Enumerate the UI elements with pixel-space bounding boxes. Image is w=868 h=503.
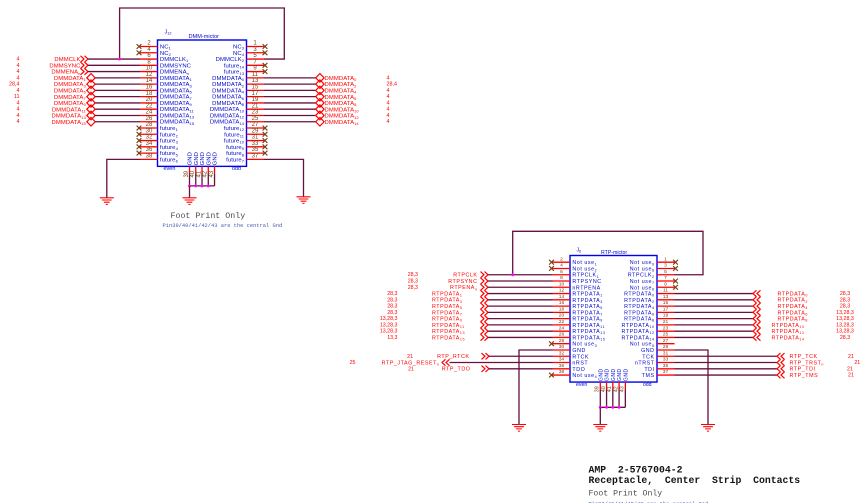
svg-text:43: 43 (620, 386, 626, 392)
svg-text:13,28,3: 13,28,3 (380, 329, 398, 335)
svg-text:future5: future5 (160, 151, 179, 157)
svg-text:RTPDATA9: RTPDATA9 (432, 317, 462, 323)
svg-text:RTPDATA11: RTPDATA11 (572, 323, 605, 329)
svg-text:22: 22 (146, 103, 153, 109)
svg-text:TDO: TDO (572, 367, 585, 373)
svg-text:4: 4 (387, 88, 390, 94)
svg-text:Not use4: Not use4 (572, 373, 597, 379)
svg-text:RTP_TDO: RTP_TDO (442, 367, 471, 373)
svg-text:NC4: NC4 (233, 51, 245, 57)
svg-text:DMMDATA7: DMMDATA7 (54, 95, 87, 101)
svg-text:40: 40 (190, 170, 196, 177)
svg-text:GND: GND (641, 348, 655, 354)
svg-text:12: 12 (559, 288, 565, 294)
svg-text:TMS: TMS (642, 373, 655, 379)
svg-text:Foot Print Only: Foot Print Only (171, 211, 246, 221)
svg-text:odd: odd (643, 382, 652, 388)
svg-text:11: 11 (14, 94, 20, 100)
svg-text:38: 38 (559, 369, 565, 375)
svg-text:4: 4 (387, 94, 390, 100)
svg-text:2: 2 (560, 256, 563, 262)
svg-text:RTPSYNC: RTPSYNC (572, 279, 601, 285)
svg-text:DMMDATA12: DMMDATA12 (325, 114, 360, 120)
svg-text:17: 17 (252, 91, 259, 97)
svg-text:DMMDATA0: DMMDATA0 (212, 76, 245, 82)
svg-text:4: 4 (17, 69, 20, 75)
svg-text:RTPCLK2: RTPCLK2 (628, 273, 655, 279)
svg-text:RTPDATA4: RTPDATA4 (778, 304, 808, 310)
svg-text:28,3: 28,3 (840, 297, 850, 303)
svg-text:DMMDATA1: DMMDATA1 (54, 76, 87, 82)
svg-text:13,28,3: 13,28,3 (836, 329, 854, 335)
svg-text:DMMDATA15: DMMDATA15 (160, 120, 195, 126)
svg-text:6: 6 (560, 269, 563, 275)
svg-text:28,4: 28,4 (387, 82, 398, 88)
svg-text:GND: GND (194, 152, 200, 165)
svg-text:Not use3: Not use3 (572, 342, 597, 348)
svg-text:future3: future3 (160, 139, 179, 145)
svg-text:RTPDATA2: RTPDATA2 (624, 298, 654, 304)
svg-text:DMMDATA2: DMMDATA2 (212, 82, 245, 88)
svg-text:RTP-mictor: RTP-mictor (601, 250, 627, 256)
svg-text:41: 41 (607, 386, 613, 392)
svg-text:12: 12 (146, 72, 153, 78)
svg-text:RTPDATA7: RTPDATA7 (572, 310, 602, 316)
svg-text:21: 21 (252, 103, 259, 109)
svg-text:13,28,3: 13,28,3 (380, 316, 398, 322)
svg-text:4: 4 (17, 107, 20, 113)
svg-text:DMMDATA10: DMMDATA10 (210, 107, 245, 113)
svg-text:GND: GND (200, 152, 206, 165)
svg-text:RTPDATA8: RTPDATA8 (624, 317, 654, 323)
svg-text:DMMDATA15: DMMDATA15 (52, 120, 87, 126)
svg-text:TDI: TDI (644, 367, 654, 373)
svg-text:RTPENAn: RTPENAn (450, 285, 477, 291)
svg-text:RTPCLK: RTPCLK (453, 273, 477, 279)
svg-text:DMMDATA4: DMMDATA4 (325, 88, 358, 94)
svg-text:35: 35 (252, 147, 259, 153)
svg-text:RTPDATA0: RTPDATA0 (778, 291, 808, 297)
svg-text:Not use2: Not use2 (572, 266, 597, 272)
svg-text:13,3: 13,3 (387, 335, 397, 341)
svg-text:17: 17 (663, 306, 669, 312)
svg-text:DMMDATA4: DMMDATA4 (212, 88, 245, 94)
svg-text:DMMDATA1: DMMDATA1 (160, 76, 193, 82)
svg-text:Not use1: Not use1 (572, 260, 597, 266)
svg-text:GND: GND (206, 152, 212, 165)
svg-text:38: 38 (146, 153, 153, 159)
svg-text:RTP_RTCK: RTP_RTCK (437, 354, 469, 360)
svg-text:4: 4 (17, 100, 20, 106)
svg-text:DMMDATA2: DMMDATA2 (325, 82, 358, 88)
svg-text:9: 9 (664, 281, 667, 287)
svg-text:29: 29 (252, 128, 259, 134)
svg-text:25: 25 (663, 332, 669, 338)
svg-text:RTPDATA1: RTPDATA1 (432, 291, 462, 297)
svg-text:RTPCLK1: RTPCLK1 (572, 273, 599, 279)
svg-text:future6: future6 (160, 157, 179, 163)
svg-text:25: 25 (252, 116, 259, 122)
svg-text:24: 24 (559, 325, 565, 331)
svg-text:GND: GND (605, 368, 611, 381)
svg-text:RTPDATA6: RTPDATA6 (624, 310, 654, 316)
svg-text:RTPDATA9: RTPDATA9 (572, 317, 602, 323)
svg-text:future11: future11 (224, 132, 245, 138)
svg-text:30: 30 (559, 344, 565, 350)
svg-text:21: 21 (847, 366, 853, 372)
svg-text:RTPDATA3: RTPDATA3 (572, 298, 602, 304)
svg-text:GND: GND (617, 368, 623, 381)
svg-text:future10: future10 (224, 139, 245, 145)
svg-text:42: 42 (613, 386, 619, 392)
svg-text:36: 36 (146, 147, 153, 153)
svg-text:34: 34 (146, 141, 153, 147)
svg-text:35: 35 (663, 363, 669, 369)
svg-text:4: 4 (560, 263, 563, 269)
svg-text:41: 41 (196, 170, 202, 177)
svg-text:Not use7: Not use7 (630, 279, 655, 285)
svg-text:RTPDATA5: RTPDATA5 (572, 304, 602, 310)
svg-text:18: 18 (146, 91, 153, 97)
svg-text:3: 3 (664, 263, 667, 269)
svg-text:18: 18 (559, 306, 565, 312)
svg-text:23: 23 (252, 110, 259, 116)
svg-text:13,28,3: 13,28,3 (836, 322, 854, 328)
svg-text:30: 30 (146, 128, 153, 134)
svg-text:DMMDATA14: DMMDATA14 (210, 120, 245, 126)
svg-text:10: 10 (146, 66, 153, 72)
svg-text:28,3: 28,3 (840, 291, 850, 297)
svg-text:GND: GND (213, 152, 219, 165)
svg-text:32: 32 (559, 350, 565, 356)
svg-text:DMMENAn: DMMENAn (51, 70, 80, 76)
svg-text:4: 4 (17, 119, 20, 125)
svg-text:4: 4 (17, 88, 20, 94)
svg-text:TCK: TCK (642, 354, 654, 360)
svg-text:future8: future8 (226, 151, 245, 157)
svg-text:11: 11 (663, 288, 668, 294)
svg-text:32: 32 (146, 135, 153, 141)
svg-text:7: 7 (664, 275, 667, 281)
svg-text:39: 39 (184, 170, 190, 177)
svg-text:nRST: nRST (572, 361, 588, 367)
svg-text:21: 21 (663, 319, 669, 325)
svg-text:DMMENAn: DMMENAn (160, 70, 189, 76)
svg-text:future14: future14 (224, 63, 245, 69)
svg-text:28,3: 28,3 (408, 272, 418, 278)
svg-text:DMMDATA9: DMMDATA9 (54, 101, 87, 107)
svg-text:24: 24 (146, 110, 153, 116)
svg-text:10: 10 (559, 281, 565, 287)
svg-text:nTRST: nTRST (635, 361, 655, 367)
svg-text:Not use6: Not use6 (630, 285, 655, 291)
svg-text:1: 1 (664, 256, 667, 262)
svg-text:RTPDATA7: RTPDATA7 (432, 310, 462, 316)
svg-text:RTPSYNC: RTPSYNC (448, 279, 477, 285)
svg-text:DMMDATA6: DMMDATA6 (212, 95, 245, 101)
svg-text:14: 14 (146, 78, 153, 84)
svg-text:28,3: 28,3 (387, 310, 397, 316)
svg-text:RTP_TRSTn: RTP_TRSTn (790, 360, 825, 366)
svg-text:RTPDATA3: RTPDATA3 (432, 298, 462, 304)
svg-text:15: 15 (252, 84, 259, 90)
svg-text:28,3: 28,3 (387, 297, 397, 303)
svg-text:RTPDATA6: RTPDATA6 (778, 310, 808, 316)
svg-text:21: 21 (848, 354, 854, 360)
svg-text:28,3: 28,3 (408, 285, 418, 291)
svg-text:4: 4 (387, 113, 390, 119)
svg-text:NC1: NC1 (160, 45, 172, 51)
svg-text:39: 39 (595, 386, 601, 392)
svg-text:4: 4 (17, 113, 20, 119)
svg-text:future12: future12 (224, 126, 245, 132)
svg-text:28,4: 28,4 (9, 82, 20, 88)
svg-text:DMMDATA0: DMMDATA0 (325, 76, 358, 82)
svg-text:GND: GND (623, 368, 629, 381)
svg-text:16: 16 (146, 84, 153, 90)
svg-text:28,3: 28,3 (387, 291, 397, 297)
svg-text:20: 20 (146, 97, 153, 103)
svg-text:4: 4 (17, 63, 20, 69)
svg-text:21: 21 (848, 373, 854, 379)
svg-text:13: 13 (252, 78, 259, 84)
svg-text:DMMDATA9: DMMDATA9 (160, 101, 193, 107)
svg-text:even: even (164, 166, 176, 172)
svg-text:16: 16 (559, 300, 565, 306)
svg-text:34: 34 (559, 357, 565, 363)
svg-text:13: 13 (663, 294, 669, 300)
svg-text:DMMDATA13: DMMDATA13 (160, 113, 195, 119)
svg-text:future2: future2 (160, 132, 179, 138)
svg-text:RTPDATA11: RTPDATA11 (432, 323, 465, 329)
svg-text:27: 27 (663, 338, 669, 344)
svg-text:13,28,3: 13,28,3 (836, 316, 854, 322)
svg-text:28: 28 (559, 338, 565, 344)
svg-text:DMMDATA5: DMMDATA5 (54, 88, 87, 94)
svg-text:even: even (576, 382, 587, 388)
svg-text:28,3: 28,3 (387, 304, 397, 310)
svg-text:4: 4 (17, 75, 20, 81)
svg-text:DMMDATA12: DMMDATA12 (210, 113, 245, 119)
svg-text:4: 4 (387, 100, 390, 106)
svg-text:36: 36 (559, 363, 565, 369)
svg-text:DMMDATA3: DMMDATA3 (160, 82, 193, 88)
svg-text:DMM-mictor: DMM-mictor (189, 34, 220, 40)
svg-text:21: 21 (408, 366, 414, 372)
svg-text:NC3: NC3 (233, 45, 245, 51)
svg-text:Receptacle, Center Strip Co: Receptacle, Center Strip Contacts (589, 475, 801, 486)
svg-text:RTPDATA5: RTPDATA5 (432, 304, 462, 310)
svg-text:RTPDATA8: RTPDATA8 (778, 317, 808, 323)
svg-text:21: 21 (854, 360, 860, 366)
svg-text:GND: GND (188, 152, 194, 165)
svg-text:28,3: 28,3 (408, 279, 418, 285)
svg-text:40: 40 (601, 386, 607, 392)
svg-text:Not use8: Not use8 (630, 266, 655, 272)
svg-text:RTP_TDI: RTP_TDI (790, 367, 816, 373)
svg-text:31: 31 (663, 350, 669, 356)
svg-text:26: 26 (559, 332, 565, 338)
svg-text:RTCK: RTCK (572, 354, 589, 360)
svg-text:Not use5: Not use5 (630, 342, 655, 348)
svg-text:RTPDATA1: RTPDATA1 (572, 292, 602, 298)
svg-text:DMMDATA3: DMMDATA3 (54, 82, 87, 88)
svg-text:DMMDATA11: DMMDATA11 (160, 107, 195, 113)
svg-text:GND: GND (611, 368, 617, 381)
svg-text:future1: future1 (160, 126, 179, 132)
svg-text:4: 4 (387, 119, 390, 125)
svg-text:4: 4 (387, 75, 390, 81)
svg-text:28,3: 28,3 (840, 335, 850, 341)
svg-text:RTP_TMS: RTP_TMS (790, 373, 819, 379)
svg-text:27: 27 (252, 122, 259, 128)
svg-text:Pin39/40/41/42/43 are the cent: Pin39/40/41/42/43 are the central Gnd (163, 223, 283, 229)
svg-text:37: 37 (663, 369, 669, 375)
svg-text:Not use9: Not use9 (630, 260, 655, 266)
svg-text:DMMDATA5: DMMDATA5 (160, 88, 193, 94)
svg-text:RTP_TCK: RTP_TCK (790, 354, 818, 360)
svg-text:13,28,3: 13,28,3 (836, 310, 854, 316)
svg-text:11: 11 (252, 72, 259, 78)
svg-text:future13: future13 (224, 70, 245, 76)
svg-text:4: 4 (387, 107, 390, 113)
svg-text:Foot Print Only: Foot Print Only (589, 488, 663, 498)
svg-text:nRTPENA: nRTPENA (572, 285, 600, 291)
svg-text:GND: GND (572, 348, 586, 354)
svg-text:4: 4 (17, 57, 20, 63)
svg-text:31: 31 (252, 135, 259, 141)
svg-text:DMMDATA11: DMMDATA11 (52, 107, 87, 113)
svg-text:22: 22 (559, 319, 565, 325)
svg-text:25: 25 (350, 360, 356, 366)
svg-text:20: 20 (559, 313, 565, 319)
svg-text:DMMDATA13: DMMDATA13 (52, 114, 87, 120)
svg-text:DMMDATA6: DMMDATA6 (325, 95, 358, 101)
svg-text:23: 23 (663, 325, 669, 331)
svg-text:42: 42 (203, 170, 209, 177)
svg-text:RTPDATA0: RTPDATA0 (624, 292, 654, 298)
svg-text:33: 33 (252, 141, 259, 147)
svg-text:DMMDATA10: DMMDATA10 (325, 107, 360, 113)
svg-text:future4: future4 (160, 145, 179, 151)
svg-text:DMMCLK: DMMCLK (54, 57, 80, 63)
svg-text:DMMDATA8: DMMDATA8 (325, 101, 358, 107)
svg-text:8: 8 (560, 275, 563, 281)
svg-text:DMMDATA14: DMMDATA14 (325, 120, 360, 126)
svg-text:RTPDATA2: RTPDATA2 (778, 298, 808, 304)
svg-text:28: 28 (146, 122, 153, 128)
svg-text:15: 15 (663, 300, 669, 306)
svg-text:26: 26 (146, 116, 153, 122)
svg-text:37: 37 (252, 153, 259, 159)
svg-text:RTPDATA4: RTPDATA4 (624, 304, 654, 310)
svg-text:odd: odd (232, 166, 241, 172)
svg-text:33: 33 (663, 357, 669, 363)
svg-text:43: 43 (209, 170, 215, 177)
svg-text:29: 29 (663, 344, 669, 350)
svg-text:21: 21 (407, 354, 413, 360)
svg-text:19: 19 (252, 97, 259, 103)
svg-text:DMMDATA7: DMMDATA7 (160, 95, 193, 101)
svg-text:DMMDATA8: DMMDATA8 (212, 101, 245, 107)
svg-text:DMMCLK1: DMMCLK1 (160, 57, 189, 63)
svg-text:future9: future9 (226, 145, 245, 151)
svg-text:DMMSYNC: DMMSYNC (160, 63, 192, 69)
svg-text:NC2: NC2 (160, 51, 172, 57)
svg-text:13,28,3: 13,28,3 (380, 322, 398, 328)
svg-text:19: 19 (663, 313, 669, 319)
svg-text:14: 14 (559, 294, 565, 300)
svg-text:future7: future7 (226, 157, 245, 163)
svg-text:GND: GND (598, 368, 604, 381)
svg-text:5: 5 (664, 269, 667, 275)
svg-text:28,3: 28,3 (840, 304, 850, 310)
svg-text:DMMCLK2: DMMCLK2 (216, 57, 245, 63)
svg-text:DMMSYNC: DMMSYNC (49, 63, 81, 69)
svg-text:AMP 2-5767004-2: AMP 2-5767004-2 (589, 464, 683, 475)
